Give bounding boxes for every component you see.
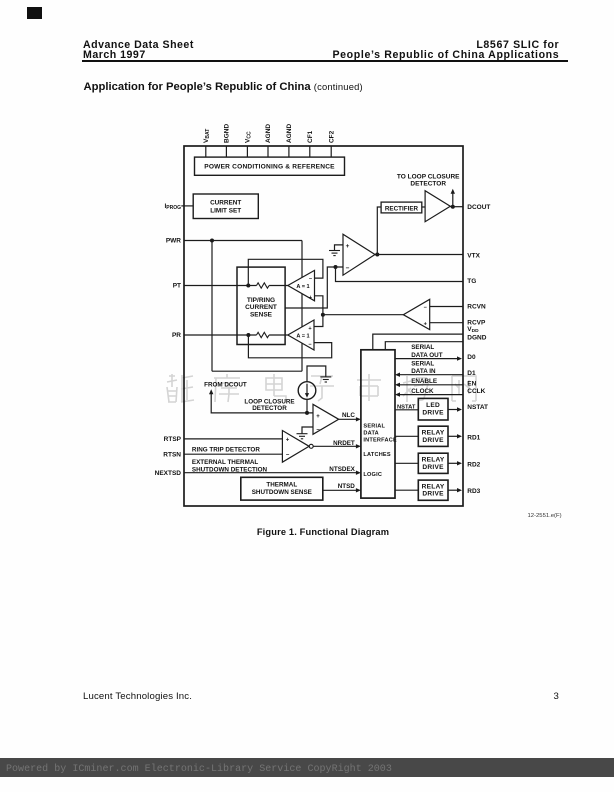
svg-text:D1: D1	[467, 370, 476, 377]
svg-text:PR: PR	[172, 332, 181, 339]
figure caption	[191, 527, 455, 537]
wire resistor to buffer A2	[269, 334, 288, 336]
wire rectifier to comparator	[422, 206, 425, 208]
label serial data out	[411, 344, 443, 359]
svg-text:+: +	[346, 243, 350, 250]
wire TG feedback from VTX inverting node	[336, 267, 463, 282]
svg-text:AGND: AGND	[265, 124, 272, 143]
pin label AGND 2	[286, 124, 293, 143]
wire PWR branch down at x211.5	[211, 241, 213, 372]
wire NRDET to logic	[313, 445, 357, 447]
wire D1 in	[399, 374, 463, 376]
wire comparator output to DCOUT pin	[450, 206, 463, 208]
watermark 维库电子市场网	[167, 374, 476, 402]
pin RD3 label	[467, 488, 480, 495]
wire logic to relay drive 1	[395, 435, 418, 437]
svg-text:IPROG: IPROG	[164, 203, 181, 211]
wire current source top stem and ground branch	[307, 366, 326, 382]
figure number small	[528, 513, 562, 519]
svg-text:RTSP: RTSP	[164, 436, 182, 443]
wire RTSP	[184, 438, 282, 440]
node PR junction	[246, 333, 250, 337]
wire NTSD to logic	[323, 489, 357, 491]
footer	[83, 691, 192, 702]
pin AGND lead 1	[267, 146, 269, 157]
block: power conditioning & reference U-PWR	[195, 157, 345, 175]
pin PWR label	[166, 238, 181, 245]
pin TG label	[467, 278, 476, 285]
wire from dcout down-right to NLC + input	[211, 393, 313, 413]
wire resistor to buffer A1	[269, 285, 288, 287]
label to loop closure detector	[397, 174, 460, 188]
svg-text:+: +	[286, 438, 290, 444]
svg-text:NSTAT: NSTAT	[467, 404, 488, 411]
wire arrow up to loop closure detector	[452, 193, 454, 207]
label ring trip detector	[192, 447, 260, 454]
svg-text:+: +	[316, 414, 320, 420]
header left	[83, 41, 194, 61]
pin VBAT lead	[205, 146, 207, 157]
pin PR label	[172, 332, 181, 339]
block: relay drive 2	[418, 453, 448, 473]
pin RCVP label	[467, 319, 486, 326]
pin VTX label	[467, 252, 480, 259]
wire RTSN	[184, 453, 282, 455]
pin EN label	[467, 380, 476, 387]
svg-text:RD3: RD3	[467, 488, 480, 495]
svg-text:SHUTDOWN SENSE: SHUTDOWN SENSE	[252, 489, 312, 496]
svg-text:A = 1: A = 1	[296, 333, 309, 339]
pin D0 label	[467, 354, 476, 361]
svg-text:D0: D0	[467, 354, 476, 361]
resistor R-tip sense	[257, 283, 270, 288]
svg-text:FROM DCOUT: FROM DCOUT	[204, 381, 247, 388]
svg-text:SERIAL: SERIAL	[363, 424, 385, 430]
pin DGND label	[467, 334, 486, 341]
svg-text:SERIAL: SERIAL	[411, 360, 434, 367]
wire PT into sense resistor	[184, 285, 257, 287]
svg-text:DCOUT: DCOUT	[467, 204, 490, 211]
svg-text:DRIVE: DRIVE	[422, 491, 444, 498]
op-amp U-RTD (ring trip comparator)	[282, 431, 309, 463]
label NTSD	[338, 483, 356, 490]
pin label BGND	[224, 124, 231, 143]
wire A1 noninverting stub to summing node	[315, 296, 323, 315]
ground at NLC - input	[297, 434, 308, 439]
ground at current source	[320, 377, 331, 382]
pin NSTAT label	[467, 404, 488, 411]
pin label VBAT	[203, 129, 211, 143]
svg-text:CF2: CF2	[328, 130, 335, 143]
wire RD3 out	[448, 489, 459, 491]
wire PT feedback up-over to A1 inverting input	[248, 259, 323, 285]
svg-text:VBAT: VBAT	[203, 129, 211, 143]
bottom ICminer bar	[0, 758, 614, 777]
svg-text:DRIVE: DRIVE	[422, 437, 444, 444]
block: tip/ring current sense	[237, 267, 285, 344]
pin RCVN label	[467, 303, 486, 310]
block: thermal shutdown sense	[241, 477, 323, 500]
svg-text:INTERFACE: INTERFACE	[363, 438, 397, 444]
section title	[84, 81, 363, 93]
svg-text:SERIAL: SERIAL	[411, 344, 434, 351]
header rule	[82, 60, 568, 62]
wire NSTAT out	[448, 409, 459, 411]
wire VTX output to VTX pin	[375, 254, 463, 256]
label NLC	[342, 412, 355, 419]
svg-text:CURRENT: CURRENT	[245, 304, 277, 311]
wire NLC - input to ground	[302, 427, 313, 434]
outer SLIC boundary box	[184, 146, 463, 506]
svg-text:RELAY: RELAY	[422, 429, 445, 436]
svg-text:PWR: PWR	[166, 238, 181, 245]
pin VDD label	[467, 326, 479, 334]
svg-text:DRIVE: DRIVE	[422, 464, 444, 471]
op-amp U-RCV (receive buffer)	[403, 299, 429, 329]
pin label CF1	[307, 130, 314, 143]
svg-text:RD1: RD1	[467, 434, 480, 441]
node PT junction	[246, 284, 250, 288]
svg-text:EXTERNAL THERMAL: EXTERNAL THERMAL	[192, 459, 259, 466]
ground at VTX + input	[329, 251, 340, 256]
svg-text:AGND: AGND	[286, 124, 293, 143]
node PWR junction	[210, 239, 214, 243]
svg-text:DATA: DATA	[363, 431, 379, 437]
svg-text:SENSE: SENSE	[250, 311, 273, 318]
op-amp U-VTX	[343, 234, 375, 275]
svg-text:TIP/RING: TIP/RING	[247, 297, 275, 304]
pin NEXTSD label	[155, 470, 182, 477]
pin RTSP label	[164, 436, 182, 443]
pin DCOUT label	[467, 204, 490, 211]
wire IPROG stub	[181, 205, 193, 207]
wire sense box output to VTX amp inverting input	[285, 267, 343, 308]
svg-text:NEXTSD: NEXTSD	[155, 470, 182, 477]
svg-text:−: −	[316, 427, 320, 433]
wire VTX + input to ground	[335, 245, 344, 251]
block: serial data interface / latches / logic	[361, 350, 395, 498]
pin AGND lead 2	[288, 146, 290, 157]
svg-text:VDD: VDD	[467, 326, 479, 334]
header right	[332, 41, 559, 61]
svg-text:CCLK: CCLK	[467, 388, 485, 395]
block: current limit set	[193, 194, 258, 219]
svg-text:DETECTOR: DETECTOR	[410, 181, 446, 188]
wire logic to relay drive 3	[395, 489, 418, 491]
block: relay drive 1	[418, 426, 448, 446]
wire PWR bottom horizontal to current source	[212, 370, 302, 372]
svg-text:ENABLE: ENABLE	[411, 378, 437, 385]
pin label AGND 1	[265, 124, 272, 143]
svg-text:RELAY: RELAY	[422, 483, 445, 490]
pin RTSN label	[163, 451, 181, 458]
svg-text:A = 1: A = 1	[296, 284, 309, 290]
svg-text:TG: TG	[467, 278, 476, 285]
svg-text:POWER CONDITIONING & REFERENCE: POWER CONDITIONING & REFERENCE	[204, 164, 335, 171]
svg-text:DETECTOR: DETECTOR	[252, 405, 287, 412]
svg-text:RTSN: RTSN	[163, 451, 181, 458]
pin CF2 lead	[330, 146, 332, 157]
block: LED drive	[418, 398, 448, 420]
wire NLC output to logic	[339, 418, 357, 420]
current source I1	[298, 382, 316, 400]
wire VDD to interface	[373, 334, 463, 350]
svg-text:DGND: DGND	[467, 334, 486, 341]
wire D0 out	[395, 358, 459, 360]
scan artifact black box top-left	[27, 7, 42, 19]
wire PWR feed down at x301.5 (passes behind A=1 buffers)	[301, 241, 303, 372]
svg-text:LOGIC: LOGIC	[363, 472, 382, 478]
svg-text:RING TRIP DETECTOR: RING TRIP DETECTOR	[192, 447, 260, 454]
svg-text:CURRENT: CURRENT	[210, 200, 241, 207]
wire RCVN input	[430, 306, 463, 308]
wire PR into sense resistor	[184, 334, 257, 336]
wire EN in	[399, 384, 463, 386]
wire logic to relay drive 2	[395, 462, 418, 464]
wire RD1 out	[448, 435, 459, 437]
svg-text:CF1: CF1	[307, 130, 314, 143]
svg-text:RECTIFIER: RECTIFIER	[385, 206, 419, 213]
svg-text:−: −	[286, 453, 290, 459]
svg-text:EN: EN	[467, 380, 476, 387]
label NTSDEX	[329, 466, 355, 473]
pin RD1 label	[467, 434, 480, 441]
node DCOUT junction	[451, 205, 455, 209]
pin D1 label	[467, 370, 476, 377]
op-amp A1 (A=1 buffer, tip)	[288, 270, 315, 300]
op-amp U-NLC (loop closure comparator)	[313, 404, 339, 434]
svg-text:PT: PT	[173, 283, 181, 290]
wire NEXTSD / NTSDEX to logic	[184, 472, 357, 474]
svg-text:NTSDEX: NTSDEX	[329, 466, 355, 473]
node VTX inverting input junction	[334, 265, 338, 269]
svg-text:RCVN: RCVN	[467, 303, 486, 310]
label from dcout	[204, 381, 247, 388]
op-amp A2 (A=1 buffer, ring)	[288, 320, 314, 350]
svg-text:CLOCK: CLOCK	[411, 388, 434, 395]
svg-text:RELAY: RELAY	[422, 456, 445, 463]
block: relay drive 3	[418, 480, 448, 500]
wire logic to LED drive	[395, 409, 418, 411]
pin BGND lead	[225, 146, 227, 157]
block: rectifier	[381, 202, 422, 213]
svg-text:DRIVE: DRIVE	[422, 409, 444, 416]
label NSTAT internal	[397, 405, 416, 411]
wire VTX output up to rectifier	[377, 207, 381, 255]
label external thermal shutdown detection	[192, 459, 268, 474]
wire DGND to interface	[385, 342, 463, 350]
svg-text:NRDET: NRDET	[333, 440, 355, 447]
svg-text:LIMIT SET: LIMIT SET	[210, 207, 241, 214]
svg-text:LED: LED	[426, 402, 440, 409]
pin RD2 label	[467, 461, 480, 468]
pin VCC lead	[246, 146, 248, 157]
wire current source bottom to NLC input node	[306, 399, 308, 413]
svg-text:BGND: BGND	[224, 124, 231, 143]
label enable	[411, 378, 437, 385]
op-amp U-DCOUT comparator	[425, 191, 450, 222]
wire PR feedback down-over to A2 inverting input	[248, 335, 331, 358]
node NLC input junction	[305, 411, 309, 415]
wire summing node to RCV amp output	[323, 314, 403, 316]
wire RD2 out	[448, 462, 459, 464]
label serial data in	[411, 360, 436, 375]
svg-text:RD2: RD2	[467, 461, 480, 468]
wire A2 noninverting stub to summing node	[314, 315, 323, 327]
label NRDET	[333, 440, 355, 447]
svg-text:−: −	[346, 265, 350, 272]
pin label VCC	[245, 131, 253, 143]
wire CCLK in	[399, 394, 463, 396]
svg-text:VTX: VTX	[467, 252, 480, 259]
pin IPROG label	[164, 203, 181, 211]
pin label CF2	[328, 130, 335, 143]
pin CF1 lead	[309, 146, 311, 157]
svg-text:DATA OUT: DATA OUT	[411, 352, 443, 359]
svg-text:VCC: VCC	[245, 131, 253, 143]
label clock	[411, 388, 434, 395]
wire RCVP input	[430, 322, 463, 324]
svg-text:NLC: NLC	[342, 412, 355, 419]
pin PT label	[173, 283, 181, 290]
wire PWR horizontal	[184, 240, 302, 242]
svg-text:THERMAL: THERMAL	[266, 482, 297, 489]
resistor R-ring sense	[257, 332, 270, 337]
svg-text:NTSD: NTSD	[338, 483, 356, 490]
node VTX output junction	[375, 253, 379, 257]
label loop closure detector	[244, 398, 294, 412]
svg-text:LATCHES: LATCHES	[363, 452, 390, 458]
node summing junction	[321, 313, 325, 317]
pin CCLK label	[467, 388, 485, 395]
